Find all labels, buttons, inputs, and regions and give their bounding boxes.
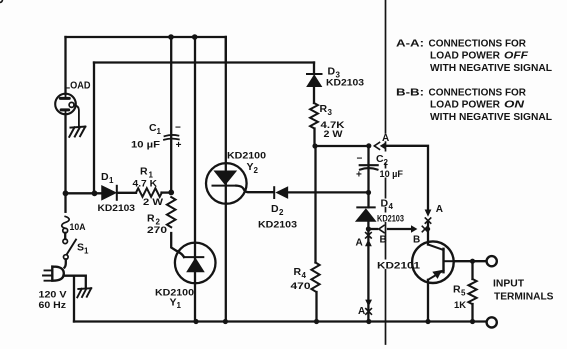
junction dot D2-C2-D4 [366, 190, 371, 195]
wire R2 bottom to Y1 gate [171, 233, 184, 257]
svg-text:+: + [176, 140, 182, 151]
legend B-B line2 [430, 99, 525, 111]
label C2 plus [356, 169, 362, 180]
wire top rail 1 [66, 36, 226, 38]
svg-text:A-A:: A-A: [396, 37, 424, 49]
label R2 value [147, 225, 167, 236]
junction dot rail1-Y1 [192, 34, 198, 40]
wire load bottom to gate-line junction [64, 114, 66, 193]
label R1 [140, 166, 154, 180]
svg-text:WITH NEGATIVE SIGNAL: WITH NEGATIVE SIGNAL [430, 62, 553, 74]
diode D3 [307, 74, 322, 86]
wire Y2 anode-cathode vertical [225, 37, 227, 322]
wire R1 to C1 junction [162, 191, 172, 193]
label R5 value [454, 300, 466, 311]
wire transistor emitter to bottom rail [427, 280, 429, 322]
svg-text:CONNECTIONS FOR: CONNECTIONS FOR [429, 37, 527, 49]
svg-text:5: 5 [461, 289, 466, 298]
label C1 plus [176, 140, 182, 151]
capacitor C1 [164, 135, 179, 140]
label R3 wattage [324, 129, 343, 140]
wire collector stub through B point into transistor [427, 223, 429, 245]
connection marker A left upper: x mark [366, 233, 372, 238]
svg-text:KD2103: KD2103 [98, 203, 136, 214]
svg-text:D: D [328, 66, 336, 78]
wire C1 vertical branch [170, 37, 172, 192]
label R1 value [133, 179, 158, 190]
label LOAD [65, 81, 91, 92]
junction dot gate-line D1 [92, 190, 98, 196]
plug 120V [43, 267, 64, 281]
svg-text:KD2101: KD2101 [377, 260, 421, 271]
node label A left upper [356, 238, 363, 249]
wire rail2 left corner down to D1 junction [93, 63, 95, 194]
wire transistor base lead to input terminal [455, 260, 486, 262]
fuse 10A [0, 0, 69, 233]
switch S1 [63, 239, 76, 259]
legend B-B line3 [430, 111, 553, 123]
svg-text:10 µF: 10 µF [131, 139, 160, 150]
junction dot B at collector [426, 227, 430, 231]
option bus vertical line [385, 0, 387, 344]
svg-text:LOAD POWER: LOAD POWER [430, 49, 500, 61]
legend A-A line2 [430, 49, 529, 61]
svg-text:−: − [357, 154, 363, 165]
svg-text:R: R [140, 166, 148, 178]
label TERMINALS [494, 291, 554, 302]
label Y2 [247, 161, 259, 175]
wire R3-R4 vertical branch [314, 87, 317, 322]
svg-text:2 W: 2 W [143, 197, 163, 208]
diode D4 [357, 207, 376, 221]
wire gate line y=193 from left junction to D1 [66, 192, 102, 194]
resistor R5 [468, 279, 476, 304]
wire Y2 gate hook to D2 line [236, 186, 272, 193]
svg-text:2 W: 2 W [324, 129, 343, 140]
label D1 [101, 171, 114, 185]
wire bottom rail [74, 320, 486, 322]
label C1 minus [175, 122, 181, 133]
label D2 [271, 203, 284, 217]
connection marker A left lower: filled arrowhead down [365, 300, 372, 307]
svg-text:1: 1 [177, 301, 182, 310]
junction dot R1-C1-R2 [168, 190, 174, 196]
wire A-row horizontal from option bus to collector corner [386, 146, 429, 210]
svg-text:1K: 1K [454, 300, 466, 311]
svg-text:B: B [380, 235, 387, 246]
junction dot rail-A [366, 319, 371, 324]
svg-text:R: R [294, 266, 302, 278]
wire rail1 right corner down to Y2 [225, 37, 227, 63]
connection marker A top: open arrowhead [374, 142, 379, 149]
legend A-A heading [396, 37, 526, 49]
junction dot R3 bottom [312, 143, 317, 148]
label C2 minus [357, 154, 363, 165]
junction dot rail-R5 [470, 319, 475, 324]
svg-text:4: 4 [302, 271, 307, 280]
junction dot gate-line left [63, 190, 69, 196]
svg-text:KD2100: KD2100 [227, 150, 266, 161]
svg-text:1: 1 [109, 176, 114, 185]
wire B-row stub from D4 node [368, 228, 377, 230]
node label B left [380, 235, 387, 246]
junction dot rail-Y2 [223, 319, 228, 324]
SCR Y1 [175, 243, 216, 284]
SCR Y2 [206, 163, 247, 204]
label 120 V [39, 289, 68, 300]
svg-text:4.7 K: 4.7 K [133, 179, 158, 190]
svg-text:A: A [436, 204, 443, 215]
svg-text:1: 1 [84, 247, 89, 256]
svg-text:WITH NEGATIVE SIGNAL: WITH NEGATIVE SIGNAL [430, 111, 553, 123]
legend A-A line3 [430, 62, 553, 74]
wire B-row arrow line from bus [388, 228, 411, 230]
svg-text:−: − [175, 122, 181, 133]
svg-text:1: 1 [157, 127, 162, 136]
label R2 [147, 213, 161, 227]
svg-text:120 V: 120 V [39, 289, 68, 300]
svg-text:2: 2 [279, 208, 284, 217]
label R4 value [291, 281, 311, 292]
wire top rail 2 [94, 61, 314, 63]
node label A at collector [436, 204, 443, 215]
label C2 value [380, 169, 404, 180]
label R5 [453, 284, 466, 298]
svg-text:270: 270 [147, 225, 167, 236]
svg-text:Y: Y [247, 161, 254, 173]
svg-text:470: 470 [291, 281, 311, 292]
svg-text:B-B:: B-B: [396, 87, 424, 99]
svg-text:TERMINALS: TERMINALS [494, 291, 554, 302]
label C1 [149, 122, 162, 136]
transistor Q1 KD2101 [412, 241, 454, 283]
svg-text:60 Hz: 60 Hz [39, 300, 67, 311]
svg-text:LOAD: LOAD [65, 81, 91, 92]
wire A-row horizontal y=146 left part [315, 145, 369, 147]
svg-text:A: A [382, 133, 389, 144]
svg-text:10A: 10A [70, 222, 86, 233]
junction dot base-R5 [470, 259, 475, 264]
svg-text:OFF: OFF [504, 49, 529, 61]
label Y2 part no [227, 150, 266, 161]
svg-text:3: 3 [328, 108, 333, 117]
svg-text:KD2103: KD2103 [258, 219, 297, 230]
label INPUT [493, 278, 524, 289]
connection marker B right: x mark [422, 226, 427, 231]
wire Y1 anode-cathode vertical [194, 37, 196, 322]
svg-text:B: B [413, 235, 420, 246]
label white backers over bus line [383, 134, 389, 269]
junction dot rail-R4 [314, 319, 319, 324]
input terminal top [487, 256, 497, 266]
label S1 [77, 242, 89, 256]
label fuse 10A [70, 222, 86, 233]
junction dot C2 top [366, 143, 371, 148]
svg-text:CONNECTIONS FOR: CONNECTIONS FOR [429, 87, 527, 99]
chassis ground at load [69, 127, 85, 137]
connection marker A left upper: filled arrowhead up [365, 239, 372, 246]
svg-text:KD2103: KD2103 [377, 213, 404, 224]
svg-text:+: + [356, 169, 362, 180]
label D3 [328, 66, 341, 80]
wire rail2 right corner down to D3 [313, 63, 315, 75]
resistor R2 [167, 197, 176, 227]
label C2 [376, 153, 389, 167]
label D2 part no [258, 219, 297, 230]
wire D1 cathode to R1 [118, 192, 137, 194]
label R3 [320, 103, 333, 117]
resistor R4 [311, 263, 319, 292]
resistor R1 [136, 188, 162, 197]
svg-text:2: 2 [254, 166, 259, 175]
load socket symbol [55, 94, 76, 115]
wire switch to plug [65, 259, 66, 267]
connection marker A left lower: x mark [366, 309, 372, 315]
svg-text:D: D [271, 203, 279, 215]
svg-text:R: R [453, 284, 461, 296]
diode D1 [102, 186, 117, 200]
svg-text:D: D [101, 171, 109, 183]
wire R5 branch [471, 261, 473, 321]
svg-text:4: 4 [389, 202, 394, 211]
junction dot D4 anode [366, 226, 371, 231]
svg-text:R: R [320, 103, 328, 115]
wire A-A lower link D4 anode to bottom rail [367, 229, 369, 322]
input terminal bottom [487, 317, 497, 327]
svg-text:2: 2 [384, 158, 389, 167]
svg-text:D: D [381, 198, 389, 210]
label C1 value [131, 139, 160, 150]
label transistor part no [377, 260, 421, 271]
legend B-B heading [396, 87, 526, 99]
label D1 part no [98, 203, 136, 214]
svg-text:A: A [358, 306, 365, 317]
diode D2 [274, 187, 287, 198]
junction dot rail1-C1 [168, 34, 174, 40]
svg-text:R: R [147, 213, 155, 225]
node label A left lower [358, 306, 365, 317]
connection marker B right: filled arrowhead pointing right [411, 225, 417, 232]
junction dot rail-Y1 [193, 319, 198, 324]
svg-text:10 µF: 10 µF [380, 169, 404, 180]
svg-text:S: S [77, 242, 84, 254]
wire fuse to switch [64, 233, 66, 239]
label D3 part no [326, 77, 364, 88]
node label B right [413, 235, 420, 246]
svg-text:ON: ON [504, 99, 525, 111]
svg-text:KD2103: KD2103 [326, 77, 364, 88]
label D4 part no [377, 213, 404, 224]
resistor R3 [310, 103, 318, 128]
label Y1 [170, 296, 182, 310]
wire left vertical from rail1 down to load [64, 37, 66, 94]
svg-text:Y: Y [170, 296, 177, 308]
capacitor C2 [360, 165, 378, 169]
wire load side contact to chassis ground [74, 105, 79, 126]
svg-text:INPUT: INPUT [493, 278, 524, 289]
label R4 [294, 266, 307, 280]
junction dot rail-emitter [425, 319, 430, 324]
connection marker A right: x mark [425, 218, 430, 223]
label Y1 part no [155, 287, 194, 298]
wire D2 anode to C2 node [288, 191, 369, 193]
connection marker B left: open arrowhead [379, 225, 384, 232]
svg-text:LOAD POWER: LOAD POWER [430, 99, 500, 111]
label R1 wattage [143, 197, 163, 208]
wire fuse top lead [64, 193, 66, 212]
chassis ground at plug [77, 288, 91, 297]
label 60 Hz [39, 300, 67, 311]
label R3 value [321, 120, 345, 131]
connection marker A right: filled arrowhead down on collector line [425, 210, 432, 217]
label D4 [381, 198, 394, 212]
connection marker A top: filled arrowhead pointing left [380, 142, 386, 149]
wire plug to ground and down-branch [64, 276, 86, 322]
node label A at C2 top [382, 133, 389, 144]
wire C2 / D4 vertical [367, 146, 369, 229]
svg-text:A: A [356, 238, 363, 249]
